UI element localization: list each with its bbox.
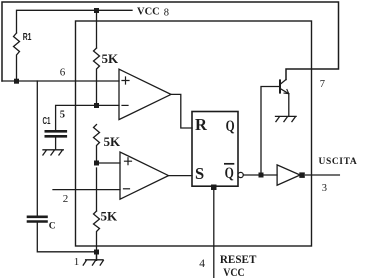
svg-text:Q: Q <box>225 165 234 182</box>
wire chain to ground symbol <box>96 252 98 260</box>
svg-text:USCITA: USCITA <box>319 157 358 167</box>
wire U2 output to S <box>169 175 193 177</box>
node chain junction 1/3Vcc <box>94 161 99 166</box>
svg-text:R1: R1 <box>23 32 32 43</box>
wire transistor base <box>261 87 279 176</box>
svg-text:VCC: VCC <box>223 265 245 278</box>
inner box (IC outline) <box>76 21 312 246</box>
wire C1 to ground <box>55 138 57 150</box>
wire discharge loop top (pin7 net) <box>2 2 339 81</box>
wire chain middle-bottom <box>96 168 98 211</box>
wire pin5 control <box>56 105 97 130</box>
op-amp U2 trigger comparator <box>120 152 169 199</box>
wire Qbar bubble <box>238 172 243 177</box>
node reset pin4 junction <box>211 185 217 191</box>
resistor 5K middle <box>94 125 100 164</box>
wire VCC rail <box>17 10 133 33</box>
wire U1 output to R <box>171 94 192 128</box>
svg-text:5K: 5K <box>102 51 120 66</box>
svg-text:5K: 5K <box>104 134 122 149</box>
node Qbar-base junction <box>259 173 264 178</box>
wire reset pin4 <box>213 186 215 278</box>
resistor R1 <box>14 33 20 81</box>
transistor Q1 <box>279 80 281 92</box>
svg-text:RESET: RESET <box>220 252 257 266</box>
capacitor C1 <box>46 130 66 133</box>
wire Qbar to buffer <box>243 174 277 176</box>
wire output pin3 <box>306 174 340 176</box>
svg-text:Q: Q <box>226 118 235 135</box>
svg-text:7: 7 <box>320 79 325 90</box>
svg-text:VCC: VCC <box>137 7 160 18</box>
ground pin1 <box>83 260 103 265</box>
wire pin2 trigger <box>53 189 120 191</box>
svg-text:6: 6 <box>60 67 66 79</box>
wire pin6 threshold <box>2 80 119 82</box>
node ground junction pin1 <box>94 250 99 255</box>
node output pin3 <box>299 172 305 178</box>
wire U1 minus input <box>97 104 120 106</box>
resistor 5K top <box>94 48 100 105</box>
ground under transistor <box>276 116 297 121</box>
node R1-pin6 junction <box>14 79 19 84</box>
svg-text:R: R <box>195 115 208 134</box>
wire C to ground rail <box>37 223 96 252</box>
flip-flop U3 box <box>192 112 238 187</box>
op-amp U1 threshold comparator <box>119 69 171 119</box>
svg-text:1: 1 <box>74 256 80 268</box>
svg-text:S: S <box>195 164 204 183</box>
wire divider chain top <box>96 10 98 48</box>
svg-text:C1: C1 <box>43 116 51 127</box>
svg-text:C: C <box>49 222 56 232</box>
resistor 5K bottom <box>94 211 100 260</box>
wire U2 plus input <box>97 162 121 164</box>
wire emitter down <box>288 94 290 117</box>
svg-text:5K: 5K <box>101 209 119 224</box>
buffer output stage <box>277 165 300 185</box>
svg-text:8: 8 <box>164 8 169 19</box>
ground under C1 <box>43 150 63 155</box>
svg-text:5: 5 <box>60 110 65 121</box>
svg-text:3: 3 <box>322 183 327 194</box>
svg-text:2: 2 <box>63 193 69 205</box>
node VCC-chain junction <box>94 8 99 13</box>
svg-text:4: 4 <box>199 258 205 270</box>
capacitor C <box>36 81 38 216</box>
node chain junction 2/3Vcc <box>94 103 99 108</box>
